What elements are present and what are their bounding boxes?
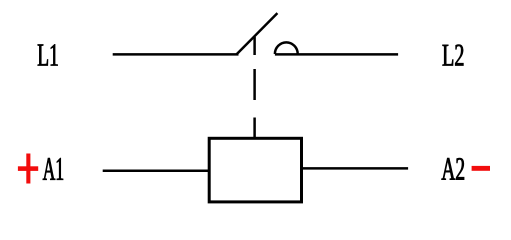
node A1 label (43, 158, 63, 180)
polarity plus (red) (18, 154, 38, 184)
coil K1 box (209, 138, 301, 202)
wire coil to A2 (303, 167, 409, 170)
actuator link dash 1 (253, 37, 256, 55)
switch S blade (237, 13, 278, 54)
wire switch to L2 (275, 53, 398, 56)
wire L1 to switch (113, 53, 239, 56)
node L2 label (443, 45, 464, 66)
switch S fixed contact arc (275, 42, 298, 54)
wire A1 to coil (103, 169, 208, 172)
node L1 label (38, 44, 58, 65)
node A2 label (442, 158, 465, 180)
polarity minus (red) (472, 166, 490, 171)
actuator link dash 3 (253, 118, 256, 138)
actuator link dash 2 (253, 69, 256, 100)
